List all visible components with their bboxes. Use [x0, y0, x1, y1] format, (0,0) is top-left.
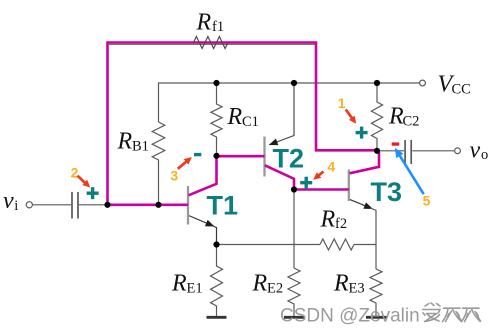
svg-text:C2: C2 — [403, 114, 420, 130]
junction input node — [104, 202, 110, 208]
transistor Q2 emitter to VCC — [270, 83, 295, 145]
ground RE2 — [284, 316, 304, 319]
wire RE2 column — [293, 190, 295, 269]
svg-text:5: 5 — [423, 192, 431, 208]
svg-text:B1: B1 — [132, 138, 149, 154]
wire Q3 collector to output node (purple) — [350, 152, 380, 173]
junction output node — [374, 148, 380, 154]
terminal output vo — [455, 148, 461, 154]
wire under feedback highlight (black original) — [109, 43, 315, 45]
svg-text:o: o — [481, 147, 488, 163]
capacitor output — [405, 140, 411, 164]
svg-text:E3: E3 — [349, 281, 365, 297]
resistor RE1 — [211, 245, 223, 316]
svg-text:v: v — [3, 188, 14, 214]
svg-text:T3: T3 — [371, 177, 403, 207]
wire VCC rail — [159, 83, 420, 122]
ground RE3 — [366, 316, 387, 319]
svg-text:i: i — [14, 198, 18, 214]
transistor Q1 emitter — [189, 216, 214, 227]
annotation arrow 4 — [313, 172, 323, 180]
annotation minus 3 — [194, 153, 201, 156]
resistor Rf2 — [320, 239, 354, 250]
wire input node to Q1 base (purple) — [106, 204, 188, 207]
junction RC1-VCC — [213, 80, 219, 86]
annotation arrow 2 — [78, 176, 91, 188]
svg-text:C1: C1 — [242, 114, 259, 130]
junction Q2 emitter-VCC — [291, 80, 297, 86]
resistor RB1 — [152, 122, 165, 205]
annotation minus 5 (red) — [392, 142, 400, 145]
resistor RE3 — [370, 269, 382, 316]
transistor Q3 base bar — [348, 170, 350, 202]
svg-text:E2: E2 — [267, 281, 283, 297]
svg-text:R: R — [171, 271, 187, 297]
svg-text:R: R — [252, 271, 268, 297]
wire C2 to output terminal — [412, 150, 454, 152]
svg-text:f1: f1 — [212, 19, 224, 35]
transistor Q3 emitter — [349, 199, 372, 208]
annotation plus 1 — [356, 127, 368, 139]
wire Q1 collector to Q2 base (purple) — [189, 156, 265, 195]
junction Q2-Q3 node — [291, 186, 297, 192]
annotation arrow 5 (blue) — [395, 148, 424, 194]
wire emitter node E1 to Rf2 — [217, 244, 321, 246]
transistor Q1 base bar — [187, 186, 189, 225]
terminal VCC — [420, 80, 426, 86]
terminal input vi — [26, 202, 32, 208]
svg-text:R: R — [333, 271, 349, 297]
resistor RC2 — [371, 83, 382, 151]
capacitor input — [72, 192, 78, 219]
transistor Q2 base bar — [263, 137, 265, 177]
wire feedback loop Rf1 (purple) — [108, 43, 376, 204]
wire output node to C2 — [377, 150, 404, 152]
resistor Rf1 — [194, 37, 229, 49]
svg-text:R: R — [227, 104, 243, 130]
wire input to C1 — [33, 204, 72, 206]
ground RE1 — [207, 316, 227, 319]
svg-text:CSDN @Zevalin: CSDN @Zevalin — [280, 306, 420, 327]
svg-text:1: 1 — [338, 95, 346, 111]
resistor RE2 — [288, 268, 300, 316]
svg-text:R: R — [196, 9, 212, 35]
wire Rf2 to T3 emitter column — [354, 244, 376, 246]
annotation arrow 3 — [178, 157, 192, 169]
svg-text:v: v — [470, 137, 481, 163]
svg-text:4: 4 — [327, 158, 335, 174]
watermark CJK glyphs — [423, 303, 481, 322]
junction RB1 bottom — [155, 202, 161, 208]
svg-text:E1: E1 — [187, 281, 203, 297]
junction Q1 collector node — [213, 153, 219, 159]
svg-text:f2: f2 — [335, 216, 347, 232]
wire Q2 collector to Q3 base (purple) — [265, 165, 349, 189]
resistor RC1 — [211, 83, 222, 156]
junction Q1 emitter node — [213, 241, 219, 247]
svg-text:R: R — [320, 206, 336, 232]
junction RC2-VCC — [374, 80, 380, 86]
annotation arrow 1 — [346, 110, 356, 124]
svg-text:T1: T1 — [207, 191, 239, 221]
annotation plus 2 — [87, 187, 99, 199]
svg-text:R: R — [117, 128, 133, 154]
svg-text:2: 2 — [71, 164, 79, 180]
wire C1 to node B1 — [79, 204, 108, 206]
svg-text:CC: CC — [452, 81, 471, 97]
annotation plus 4 — [300, 177, 312, 189]
svg-text:3: 3 — [170, 168, 178, 184]
svg-text:T2: T2 — [273, 143, 305, 173]
